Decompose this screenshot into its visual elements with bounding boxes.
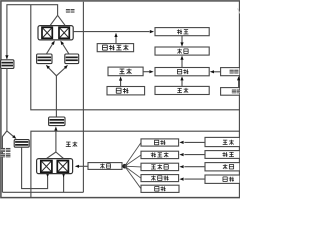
box D1 erect forms (right edge cut)	[221, 68, 240, 76]
bottom mixer drum X-box 1	[41, 161, 52, 173]
label: loading	[66, 141, 70, 143]
wire: mixers output to box T1 with arrow	[73, 31, 149, 33]
arrow D2 up to D1	[238, 80, 240, 87]
box T4 machinery	[155, 86, 209, 94]
box install	[108, 67, 143, 76]
wire: split right branch with arrow into hatch H5	[7, 131, 14, 137]
bottom mixer drum X-box 2	[57, 161, 68, 173]
wire: split left branch to border	[2, 131, 7, 192]
wire: lambda split to bottom mixers	[47, 152, 56, 158]
arrow T4 up to T3	[181, 80, 183, 87]
fan wires from junction to material boxes	[125, 143, 141, 167]
arrow T1 down to T2	[181, 36, 183, 43]
wire: long return line right side top to bottom	[82, 2, 84, 193]
box formwork	[107, 87, 145, 95]
top mixer container U1	[38, 26, 73, 40]
mixer drum X-box 2	[59, 27, 69, 38]
hatch H1 (left transport station)	[1, 60, 14, 69]
hatch H2 (left feed bin)	[37, 54, 52, 64]
box T3 spreading	[155, 68, 209, 76]
box mixing	[88, 163, 122, 170]
mixer drum X-box 1	[42, 27, 52, 38]
wire: split into two mixer inlets	[50, 15, 58, 25]
wire: left line down to queue split	[6, 68, 8, 130]
tiny label: pumping (top)	[66, 9, 70, 13]
box T2 pouring	[155, 47, 209, 55]
hatch H3 (right feed bin)	[65, 54, 79, 64]
label: vehicle queue (two lines)	[1, 148, 6, 152]
arrow install to T3	[143, 71, 149, 73]
arrow down: left mixer discharge	[46, 173, 49, 177]
box cement	[141, 185, 179, 192]
box mixing water	[141, 175, 179, 182]
box processing (right edge cut)	[205, 151, 240, 159]
arrows source column to material column	[184, 141, 205, 143]
hatch H5 (truck loading hopper)	[14, 140, 29, 148]
arrow formwork up to install	[120, 80, 122, 87]
bottom section box (mixing plant area)	[31, 131, 240, 197]
box obtaining (right edge cut)	[205, 163, 240, 171]
wire: H2 up to container with arrow	[47, 43, 54, 54]
wire: conveyor up-feed with arrow from bottom plant	[55, 130, 57, 152]
box T1 transport	[155, 28, 209, 36]
wire: right mixer discharge down to return line	[63, 176, 65, 192]
top section box (construction/placement area)	[31, 5, 240, 110]
arrow T3 up to T2	[181, 59, 183, 68]
outer border frame	[1, 1, 240, 198]
wire: bottom return line to left border	[2, 191, 83, 193]
wire: top feed line from left loop to mixers	[7, 5, 58, 59]
junction node dot	[122, 164, 127, 169]
box temperature control (right edge cut)	[205, 175, 240, 183]
wire: H5 down, right, up to mixer discharge	[22, 147, 48, 188]
box quarrying (right edge cut)	[205, 137, 240, 146]
box cold aggregate	[141, 139, 179, 146]
arrow down into left hatch H1	[5, 55, 8, 59]
wire: H3 up to container with arrow	[62, 43, 69, 54]
box additive	[141, 163, 179, 170]
box quality control	[97, 44, 133, 52]
bottom mixer container U2	[37, 159, 73, 174]
faint stray mark top-right corner	[238, 8, 240, 13]
wire: mid feed line V split under bins	[55, 76, 57, 117]
arrow D1 to T3	[214, 71, 221, 73]
box D2 embedded parts (right edge cut)	[221, 88, 240, 96]
hatch H4 (main belt conveyor)	[49, 117, 65, 126]
box admixture blend	[141, 151, 179, 158]
arrow mixing to bottom mixers	[78, 165, 88, 167]
arrow quality control up into output wire	[115, 37, 117, 44]
